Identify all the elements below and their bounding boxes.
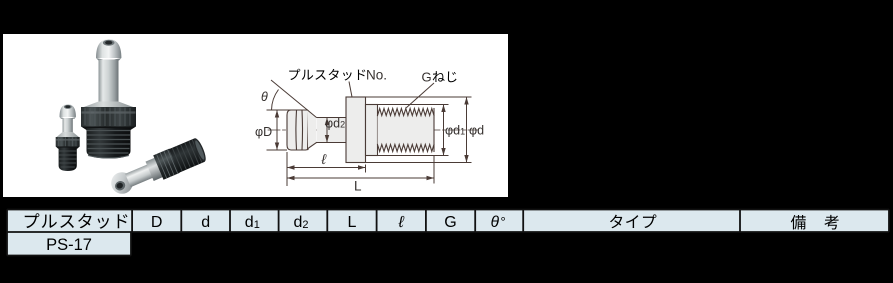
- svg-text:θ°: θ°: [491, 214, 506, 231]
- θ taper extension line: [271, 80, 317, 118]
- table: PS-17 cell background: [7, 232, 131, 256]
- dim L extension line: [433, 156, 435, 184]
- drawing: step shank: [366, 105, 378, 156]
- dim ℓ extension lines: [287, 152, 366, 186]
- svg-text:ℓ: ℓ: [398, 214, 405, 231]
- drawing: pull stud head (φD): [287, 110, 308, 150]
- svg-text:PS-17: PS-17: [46, 236, 92, 254]
- table header: 備考: [791, 215, 806, 229]
- svg-text:G: G: [422, 70, 432, 85]
- drawing: head taper to neck: [307, 110, 317, 149]
- table: header row background: [7, 210, 889, 233]
- dim φd1 extension lines: [378, 105, 449, 156]
- drawing: centerline: [268, 129, 478, 131]
- photo small stud: [56, 104, 80, 171]
- table header: プルスタッド: [25, 213, 40, 228]
- θ angle arc: [272, 90, 279, 111]
- leader line Gねじ: [406, 83, 434, 108]
- svg-text:L: L: [348, 214, 357, 231]
- svg-text:ℓ: ℓ: [321, 151, 327, 167]
- dim φd line: [466, 97, 468, 163]
- photo large stud: [81, 39, 136, 158]
- photo lying stud: [107, 136, 208, 199]
- white content panel: [3, 34, 508, 197]
- svg-text:φd2: φd2: [325, 117, 345, 131]
- dim φd2 line: [326, 118, 328, 143]
- svg-text:G: G: [444, 214, 456, 231]
- svg-text:θ: θ: [261, 90, 268, 104]
- svg-text:φd1: φd1: [445, 124, 465, 138]
- dim φD extension lines + θ base: [267, 110, 309, 150]
- label プルスタッドNo.: [289, 69, 300, 80]
- svg-text:φd: φd: [469, 124, 484, 138]
- dim φD line: [276, 110, 278, 150]
- drawing: neck (φd2): [317, 118, 346, 143]
- drawing: threaded shank (G thread): [378, 109, 435, 152]
- dim L line: [287, 177, 434, 179]
- dim ℓ line: [287, 167, 366, 169]
- table header: タイプ: [610, 215, 622, 229]
- svg-text:L: L: [354, 179, 362, 194]
- table grid lines: [7, 210, 889, 256]
- svg-text:d: d: [201, 214, 210, 231]
- dim φd extension lines: [366, 97, 472, 163]
- dim φd1 line: [443, 105, 445, 156]
- svg-text:No.: No.: [366, 68, 387, 83]
- drawing: flange (φd): [346, 97, 366, 163]
- svg-text:φD: φD: [255, 125, 272, 139]
- leader line プルスタッドNo.: [349, 82, 352, 98]
- svg-text:D: D: [151, 214, 163, 231]
